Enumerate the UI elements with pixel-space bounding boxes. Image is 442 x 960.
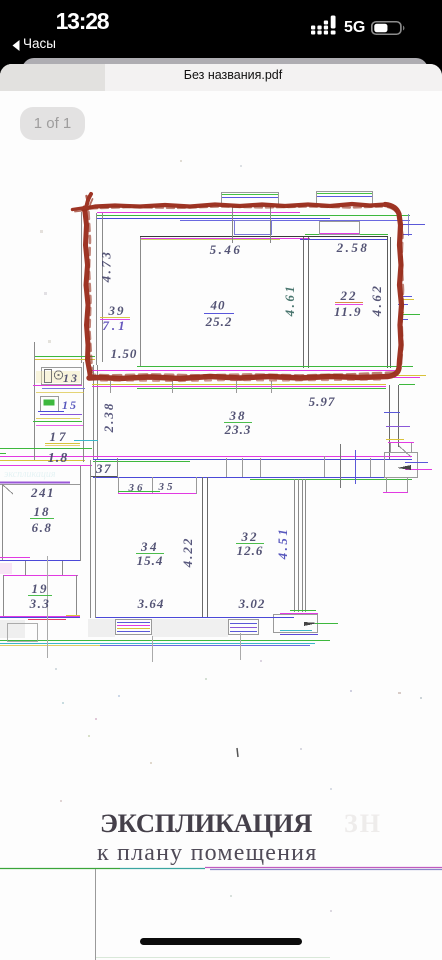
svg-text:40: 40 <box>210 298 226 313</box>
shaft right of room 32 <box>295 479 306 612</box>
svg-text:4.22: 4.22 <box>180 537 195 569</box>
red loop bottom stroke <box>89 368 399 379</box>
room 17 marks <box>0 441 98 454</box>
scan speckles <box>40 160 422 912</box>
svg-text:38: 38 <box>229 408 247 423</box>
svg-text:36: 36 <box>128 482 146 494</box>
room 39 label <box>100 303 130 333</box>
svg-text:ЗН: ЗН <box>344 809 382 838</box>
sheet header bar <box>0 64 442 91</box>
bottom exterior wall band <box>0 617 330 646</box>
svg-text:2.58: 2.58 <box>336 240 370 255</box>
room 18 label <box>30 504 54 535</box>
svg-text:32: 32 <box>241 529 259 544</box>
window opening box top-right <box>320 222 360 235</box>
room 18 <box>0 466 81 561</box>
wall between rooms 34 and 32 <box>203 477 208 618</box>
outer top wall lines <box>97 213 410 221</box>
room 22 label <box>334 288 363 319</box>
red loop top stroke <box>83 204 385 209</box>
svg-text:15.4: 15.4 <box>137 553 164 568</box>
svg-text:3.3: 3.3 <box>29 596 51 611</box>
svg-text:1.8: 1.8 <box>48 451 69 466</box>
title Без названия.pdf <box>12 68 442 82</box>
room 13 box <box>33 368 85 393</box>
svg-text:22: 22 <box>340 288 358 303</box>
svg-text:18: 18 <box>34 504 51 519</box>
faint bottom page line <box>95 957 330 959</box>
band above room 18 <box>0 483 80 485</box>
svg-text:35: 35 <box>158 481 176 493</box>
home indicator <box>140 938 302 945</box>
svg-text:ЭКСПЛИКАЦИЯ: ЭКСПЛИКАЦИЯ <box>100 808 312 838</box>
room 38 label <box>224 408 252 437</box>
svg-text:11.9: 11.9 <box>334 304 362 319</box>
window edge ticks on top wall <box>233 206 271 243</box>
svg-text:37: 37 <box>95 461 112 476</box>
svg-text:4.51: 4.51 <box>275 527 290 561</box>
svg-text:17: 17 <box>50 429 69 444</box>
gap between 18 and 19 <box>0 561 63 575</box>
room 15 box <box>33 397 83 426</box>
top protrusion box left <box>222 193 279 207</box>
svg-text:6.8: 6.8 <box>32 520 53 535</box>
back link Часы <box>12 38 20 56</box>
wall between room 40 and 22 <box>304 237 309 368</box>
room 19 label <box>28 581 52 611</box>
room 34 label <box>136 539 164 568</box>
1 of 1 pill <box>20 107 85 140</box>
svg-text:3.64: 3.64 <box>137 596 165 611</box>
top protrusion box right <box>317 192 373 206</box>
svg-text:2.38: 2.38 <box>101 402 116 434</box>
svg-text:7.1: 7.1 <box>102 318 127 333</box>
header left darker segment <box>0 64 105 91</box>
stray small mark <box>237 748 238 757</box>
svg-text:3.02: 3.02 <box>238 596 266 611</box>
corridor bottom lines <box>93 478 412 480</box>
cellular signal icon <box>311 15 343 35</box>
svg-text:4.73: 4.73 <box>99 250 114 284</box>
corridor top lines <box>0 457 412 466</box>
box 37 <box>91 458 118 477</box>
inner top wall line <box>140 235 388 240</box>
5G label <box>344 19 365 37</box>
svg-text:4.61: 4.61 <box>282 284 297 318</box>
svg-text:241: 241 <box>30 485 55 500</box>
wall between room 39 and 40 <box>140 237 142 366</box>
building left wall lower <box>91 460 96 618</box>
bottom wall of rooms 40/22 <box>90 367 400 389</box>
svg-text:12.6: 12.6 <box>237 543 264 558</box>
pilaster column right end of corridor <box>383 443 432 493</box>
battery icon <box>371 21 405 35</box>
left small rooms column walls <box>35 342 84 462</box>
red loop right stroke <box>385 205 402 369</box>
shaft bottom box <box>274 611 339 635</box>
opening ticks in bottom wall of 40 <box>111 381 272 393</box>
svg-text:5.46: 5.46 <box>210 242 243 257</box>
red loop start hook <box>86 194 92 210</box>
red loop left stroke <box>85 208 91 378</box>
axis ticks below bottom wall <box>48 556 241 662</box>
svg-text:4.62: 4.62 <box>369 284 384 318</box>
status bar time <box>47 8 117 35</box>
svg-text:23.3: 23.3 <box>224 422 252 437</box>
svg-text:19: 19 <box>32 581 49 596</box>
left outer wall double vertical <box>82 212 103 460</box>
right wall of room 22 <box>388 237 391 368</box>
right outer corner detail <box>398 214 425 236</box>
boxes 36 35 <box>118 477 197 494</box>
red marker loop <box>73 194 404 381</box>
right wall of room 38 <box>384 385 411 460</box>
svg-text:5.97: 5.97 <box>309 394 336 409</box>
svg-text:экспликация: экспликация <box>4 469 56 480</box>
room 19 <box>0 575 80 620</box>
room 40 label <box>204 298 234 330</box>
corridor opening ticks <box>227 444 371 488</box>
right wall exterior ticks <box>394 297 426 385</box>
left column top cap lines <box>35 357 95 360</box>
svg-text:13: 13 <box>63 371 79 385</box>
svg-text:25.2: 25.2 <box>205 314 233 329</box>
svg-text:15: 15 <box>62 398 78 412</box>
svg-text:1.50: 1.50 <box>111 346 138 361</box>
room 32 label <box>236 529 264 558</box>
table left column rule <box>95 869 97 960</box>
svg-text:к плану помещения: к плану помещения <box>97 840 317 866</box>
window opening box top-mid <box>235 221 272 235</box>
svg-text:39: 39 <box>108 303 126 318</box>
table top rule <box>0 868 442 870</box>
svg-text:34: 34 <box>140 539 159 554</box>
